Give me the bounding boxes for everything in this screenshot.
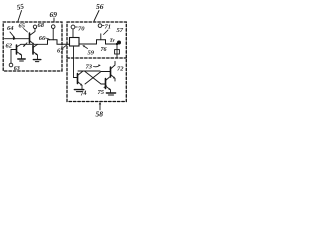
svg-text:70: 70 — [78, 26, 85, 33]
hump component 76 — [97, 40, 118, 44]
leader diagonal — [104, 30, 109, 35]
leader from 58 — [99, 103, 101, 110]
leader from 55 — [18, 11, 22, 22]
svg-text:Tr: Tr — [110, 38, 116, 44]
emitter drop TL — [81, 85, 83, 89]
svg-text:74: 74 — [80, 90, 88, 98]
small box on wire — [115, 50, 120, 54]
transistor TR — [110, 67, 112, 77]
wire right of block — [79, 43, 97, 45]
terminal circle 63 — [9, 63, 13, 67]
left dashed box 55 — [3, 22, 62, 71]
ground under TL — [74, 89, 83, 91]
leader from 75 — [104, 86, 107, 88]
svg-text:69: 69 — [50, 10, 58, 19]
transistor 65 — [29, 33, 31, 43]
emitter drop TB — [110, 90, 112, 93]
svg-text:64: 64 — [7, 25, 14, 32]
svg-text:75: 75 — [98, 89, 105, 96]
svg-text:68: 68 — [38, 22, 45, 29]
svg-text:67: 67 — [57, 48, 64, 55]
svg-text:66: 66 — [39, 35, 46, 42]
svg-text:71: 71 — [105, 24, 112, 31]
leader from 66 — [46, 38, 50, 40]
transistor TL — [77, 74, 79, 84]
terminal circle 71 — [98, 24, 102, 28]
svg-text:72: 72 — [117, 66, 124, 73]
stem and terminal of 66 — [51, 25, 55, 29]
transistor right of 62 — [32, 46, 34, 55]
collector row wire — [21, 43, 48, 45]
svg-text:76: 76 — [101, 47, 107, 53]
svg-text:65: 65 — [19, 23, 26, 30]
leader from 65 — [24, 29, 28, 33]
svg-text:62: 62 — [6, 43, 13, 50]
wire down from junction — [116, 44, 118, 58]
svg-text:59: 59 — [88, 50, 95, 57]
wire from 70 — [72, 29, 74, 38]
transistor 62 — [16, 45, 18, 54]
terminal circle 70 — [71, 25, 75, 29]
terminal circle 68 — [33, 25, 36, 28]
leader arrow to 63 transistor — [24, 43, 28, 47]
wire base row — [5, 38, 30, 40]
divider dashed line — [67, 57, 126, 59]
wire below block — [74, 46, 78, 78]
wire to terminal 63 — [10, 50, 12, 64]
leader from 73 — [94, 66, 100, 67]
ground under 62 — [21, 55, 23, 59]
hump component 66 — [48, 40, 70, 45]
ink dot — [117, 41, 121, 45]
right dashed box 56 — [67, 22, 126, 102]
junction dot — [116, 43, 118, 45]
transistor TB — [105, 79, 107, 89]
leader from 59 — [83, 46, 88, 49]
svg-text:58: 58 — [96, 110, 104, 119]
leader from 69 — [53, 18, 55, 22]
svg-text:57: 57 — [117, 27, 124, 34]
leader from 56 — [94, 11, 99, 22]
arrowhead on wire — [13, 37, 16, 40]
collector rail — [78, 70, 100, 72]
svg-text:56: 56 — [96, 2, 104, 11]
ground under right transistor — [37, 55, 39, 59]
ground under TB — [106, 92, 115, 94]
label 70 — [75, 26, 77, 28]
label 71 — [102, 25, 104, 27]
arrow from 64 — [10, 32, 15, 38]
stem of hump 76 — [100, 34, 102, 40]
svg-text:63: 63 — [14, 66, 20, 72]
leader from 67 — [64, 45, 67, 47]
cross coupling X — [85, 72, 101, 85]
svg-text:73: 73 — [86, 64, 93, 71]
svg-text:55: 55 — [16, 2, 25, 11]
block component — [70, 38, 80, 47]
